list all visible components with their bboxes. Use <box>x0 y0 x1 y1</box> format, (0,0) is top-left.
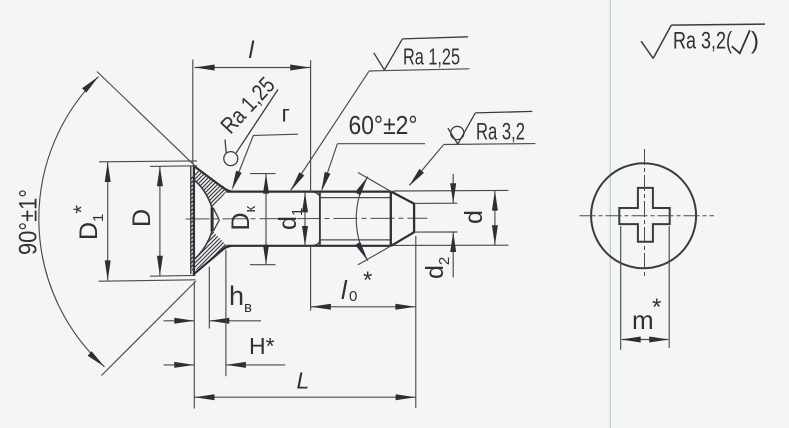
svg-text:г: г <box>282 101 290 127</box>
svg-text:D: D <box>128 209 156 227</box>
svg-text:Ra 3,2(: Ra 3,2( <box>673 27 732 54</box>
svg-text:*: * <box>652 294 661 321</box>
svg-text:l: l <box>249 37 255 64</box>
svg-text:L: L <box>297 367 310 393</box>
svg-text:Ra 1,25: Ra 1,25 <box>403 43 460 69</box>
svg-text:m: m <box>632 305 654 335</box>
svg-text:): ) <box>751 27 759 54</box>
svg-text:Ra 3,2: Ra 3,2 <box>476 118 525 145</box>
svg-text:H*: H* <box>249 333 275 359</box>
svg-text:0: 0 <box>349 288 357 305</box>
svg-text:d: d <box>460 210 488 224</box>
svg-text:60°±2°: 60°±2° <box>349 110 418 140</box>
svg-text:90°±1°: 90°±1° <box>15 189 43 255</box>
svg-text:*: * <box>363 267 372 294</box>
